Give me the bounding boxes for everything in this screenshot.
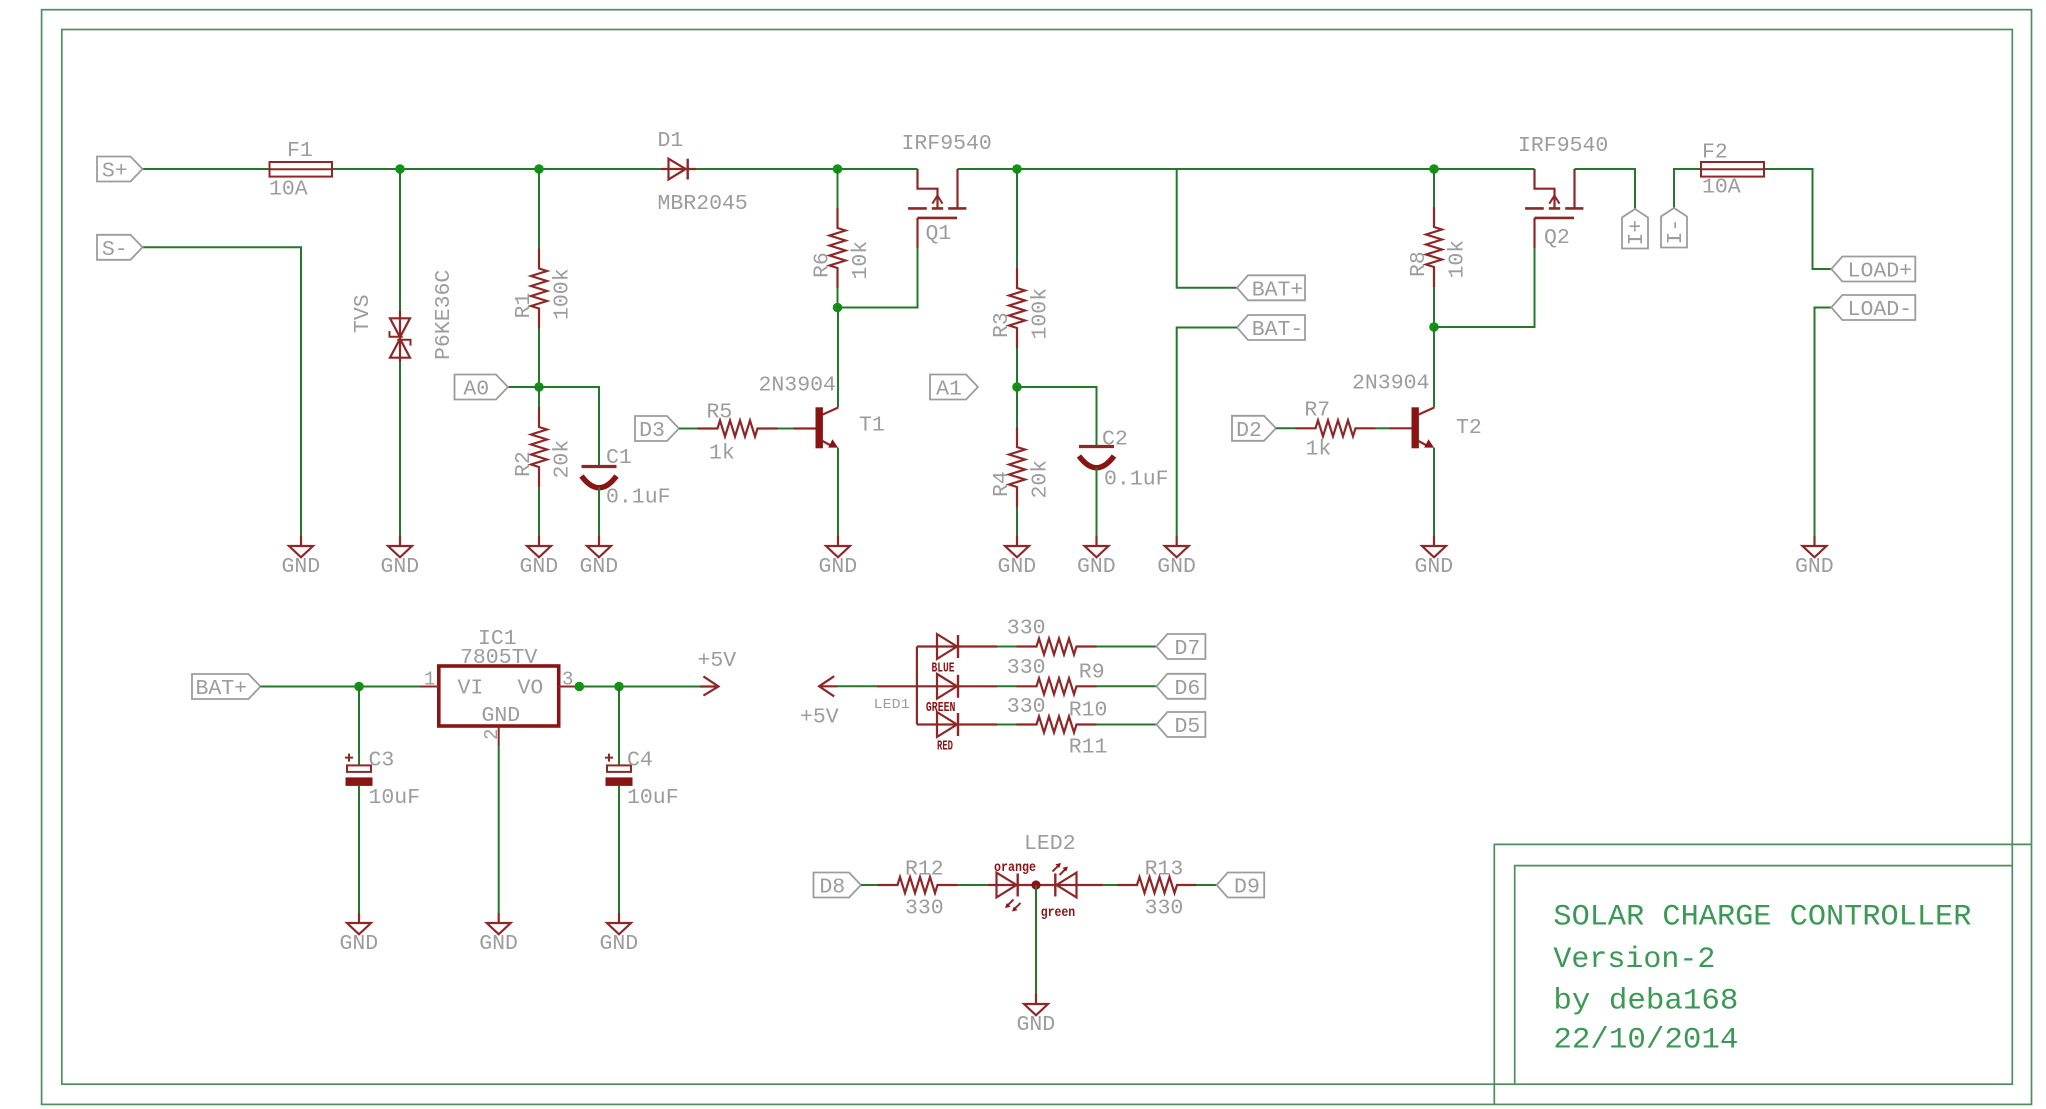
svg-text:GND: GND [381,555,420,579]
wire R5 to T1 base [778,428,816,430]
svg-text:RED: RED [937,738,953,754]
wire IC1 VO to +5V [579,686,701,688]
wire S- down [142,247,301,536]
svg-text:+5V: +5V [800,705,839,729]
svg-text:2N3904: 2N3904 [759,374,836,398]
wire C2 to ground [1096,468,1098,537]
junction R8 tap [1429,164,1439,174]
ground GND (S-) [282,536,321,579]
resistor R5 [698,401,778,466]
wire LOAD- to ground [1815,308,1832,537]
wire A0 node to R2 [538,387,540,407]
wire R3 to A1 node [1016,348,1018,387]
svg-text:GND: GND [482,704,521,728]
svg-text:R2: R2 [512,451,536,477]
node LOAD- flag [1831,295,1915,322]
svg-text:GND: GND [479,932,518,956]
svg-text:LED1: LED1 [874,697,910,713]
svg-text:10A: 10A [269,178,308,202]
wire R8 to gate node [1433,287,1435,327]
wire R2 to ground [538,487,540,536]
node S- flag [97,235,143,262]
node D5 flag [1156,712,1205,739]
wire T2 emitter to ground [1433,448,1435,536]
wire C4 branch [618,687,620,766]
wire gate node to Q1 gate [838,248,918,308]
wire bus to R1 [538,169,540,249]
node D2 flag [1232,416,1276,443]
svg-text:GREEN: GREEN [926,700,956,716]
IC1 7805TV regulator [420,627,579,746]
svg-text:R7: R7 [1304,399,1330,423]
node S+ flag [97,157,143,184]
svg-text:GND: GND [600,932,639,956]
ground GND (C3) [340,913,379,956]
diode TVS P6KE36C [351,270,456,362]
ground GND (BAT-) [1157,536,1196,579]
svg-text:GND: GND [1017,1013,1056,1037]
wire R13 to D9 [1196,884,1217,886]
junction C3 tap [354,682,364,692]
wire S+ to F1 [142,168,270,170]
svg-text:GND: GND [1157,555,1196,579]
ground GND (R4) [998,536,1037,579]
svg-text:Q1: Q1 [926,222,952,246]
wire D3 to R5 [679,428,698,430]
junction R1 tap [534,164,544,174]
resistor R3 [990,268,1053,348]
node I- flag [1661,208,1688,248]
node I+ flag [1622,209,1649,249]
svg-text:10uF: 10uF [627,786,679,810]
transistor T1 2N3904 npn [759,374,885,449]
wire R1 to A0 node [538,329,540,388]
svg-text:GND: GND [580,555,619,579]
ground GND (C1) [580,536,619,579]
ground GND (T2) [1415,536,1454,579]
svg-text:330: 330 [1007,695,1046,719]
svg-text:D2: D2 [1236,419,1262,443]
svg-text:BAT+: BAT+ [195,677,247,701]
resistor R11 [1007,695,1108,760]
wire C3 branch [358,687,360,766]
svg-text:R10: R10 [1069,699,1108,723]
svg-text:R11: R11 [1069,736,1108,760]
wire bus to R3 [1016,169,1018,268]
node D3 flag [635,416,679,443]
svg-text:10A: 10A [1702,176,1741,200]
svg-text:GND: GND [1795,555,1834,579]
wire +5V to LED1 [837,685,876,687]
ground GND (IC1) [479,913,518,956]
wire R4 to ground [1016,507,1018,536]
wire bus to TVS [399,169,401,311]
svg-text:green: green [1041,905,1076,921]
fuse F2 [1701,141,1764,200]
wire D8 to R12 [861,884,878,886]
node D7 flag [1156,634,1205,661]
wire R9 to D7 [1097,646,1157,648]
svg-text:3: 3 [562,669,573,691]
svg-text:by deba168: by deba168 [1553,985,1738,1019]
svg-text:R6: R6 [811,252,835,278]
svg-text:A1: A1 [936,378,962,402]
svg-text:D3: D3 [639,419,665,443]
ground GND (C4) [600,913,639,956]
title text [1553,901,1971,1058]
resistor R4 [990,427,1053,507]
svg-text:330: 330 [1007,617,1046,641]
junction A0 node [534,382,544,392]
wire BAT- to ground [1177,328,1237,537]
wire F1 to Q1 source (bus) [332,168,918,170]
ground GND (R2) [520,536,559,579]
svg-text:C3: C3 [369,748,395,772]
resistor R8 [1407,207,1470,287]
node D6 flag [1156,674,1205,701]
node D8 flag [814,873,862,900]
svg-text:S+: S+ [102,160,128,184]
svg-text:S-: S- [102,238,128,262]
svg-text:7805TV: 7805TV [460,646,538,670]
svg-text:1: 1 [424,669,435,691]
svg-text:C2: C2 [1102,428,1128,452]
svg-text:100k: 100k [1029,288,1053,340]
svg-text:GND: GND [998,555,1037,579]
wire LED2 to R13 [1103,884,1117,886]
svg-text:orange: orange [994,860,1036,876]
svg-text:GND: GND [340,932,379,956]
resistor R7 [1296,399,1376,462]
svg-text:20k: 20k [551,440,575,479]
svg-text:22/10/2014: 22/10/2014 [1553,1024,1738,1058]
svg-text:D5: D5 [1175,715,1201,739]
node A1 flag [930,375,978,402]
svg-text:D1: D1 [658,129,684,153]
svg-text:GND: GND [1415,555,1454,579]
svg-text:10uF: 10uF [369,786,421,810]
svg-text:+5V: +5V [698,649,737,673]
node BAT- flag [1237,315,1305,342]
wire bus to R6 [837,169,839,208]
wire bus to R8 [1433,169,1435,207]
svg-text:Version-2: Version-2 [1553,943,1715,977]
wire C1 to ground [598,488,600,537]
svg-text:F1: F1 [287,139,313,163]
junction TVS tap [395,164,405,174]
resistor R1 [512,249,575,329]
wire D2 to R7 [1276,427,1296,429]
node BAT+ flag [1237,275,1305,302]
svg-text:F2: F2 [1702,141,1728,165]
svg-text:1k: 1k [709,442,735,466]
wire Q2 drain to I+ [1575,169,1636,209]
svg-text:10k: 10k [849,241,873,280]
resistor R2 [512,407,575,487]
svg-text:100k: 100k [551,268,575,320]
svg-text:GND: GND [819,555,858,579]
wire C4 to ground [618,786,620,913]
capacitor C2 [1079,428,1169,492]
svg-text:R12: R12 [905,857,944,881]
junction R6/gate/T1 node [833,303,843,313]
wire R7 to T2 base [1376,427,1412,429]
svg-text:BAT+: BAT+ [1252,278,1304,302]
wire green led to R10 [958,685,1017,687]
resistor R13 [1117,857,1197,920]
svg-text:GND: GND [282,555,321,579]
node D9 flag [1217,873,1265,900]
svg-text:GND: GND [1077,555,1116,579]
wire A1 row to C2 [1017,387,1097,447]
svg-text:BAT-: BAT- [1252,318,1304,342]
resistor R9 [1007,617,1105,685]
svg-text:IRF9540: IRF9540 [1518,134,1608,158]
svg-text:T1: T1 [859,414,885,438]
svg-text:2: 2 [481,729,503,740]
transistor Q2 IRF9540 p-mosfet [1518,134,1608,250]
svg-text:IRF9540: IRF9540 [902,132,992,156]
junction C4 tap [614,682,624,692]
svg-text:R5: R5 [707,401,733,425]
svg-text:C1: C1 [606,446,632,470]
svg-text:D7: D7 [1175,637,1201,661]
wire IC1 GND pin down [498,746,500,913]
svg-text:T2: T2 [1456,416,1482,440]
wire R10 to D6 [1097,685,1157,687]
wire bus to BAT+ [1177,169,1237,288]
svg-text:R3: R3 [990,312,1014,338]
svg-text:2N3904: 2N3904 [1352,372,1429,396]
junction VO pin node [575,682,585,692]
svg-text:D9: D9 [1234,876,1260,900]
svg-text:330: 330 [1007,656,1046,680]
node LOAD+ flag [1831,257,1915,284]
svg-text:A0: A0 [463,378,489,402]
capacitor C1 [582,446,671,510]
ground GND (C2) [1077,536,1116,579]
diode D1 MBR2045 [658,129,748,216]
svg-text:TVS: TVS [351,294,375,333]
junction A1 node [1012,382,1022,392]
resistor R6 [811,208,874,288]
svg-text:SOLAR CHARGE CONTROLLER: SOLAR CHARGE CONTROLLER [1553,901,1971,935]
junction R3 tap [1012,164,1022,174]
capacitor C4 polarized [605,748,679,810]
wire red led to R11 [958,723,1017,725]
wire T1 emitter to ground [837,448,839,536]
title block outer box [1494,844,2031,1104]
svg-text:C4: C4 [627,748,653,772]
wire R11 to D5 [1097,724,1157,726]
svg-text:GND: GND [520,555,559,579]
svg-text:LED2: LED2 [1024,832,1076,856]
svg-text:I-: I- [1664,219,1688,245]
svg-text:R13: R13 [1145,857,1184,881]
svg-text:BLUE: BLUE [932,661,955,677]
node A0 flag [455,375,509,402]
ground GND (LOAD-) [1795,536,1834,579]
wire node to T2 collector [1433,327,1435,408]
junction D1/R6 node [833,164,843,174]
svg-text:R8: R8 [1407,251,1431,277]
svg-text:0.1uF: 0.1uF [1104,467,1169,491]
wire R12 to LED2 [958,884,989,886]
resistor R12 [878,857,958,920]
fuse F1 [269,139,332,202]
wire gate node to Q2 gate [1434,248,1535,327]
wire F2 to LOAD+ [1764,169,1831,269]
led LED1 RGB common anode [874,634,958,754]
svg-text:Q2: Q2 [1544,226,1570,250]
svg-text:10k: 10k [1446,240,1470,279]
svg-text:P6KE36C: P6KE36C [432,270,456,360]
svg-text:0.1uF: 0.1uF [606,486,671,510]
wire BAT+ to IC1 VI [261,686,421,688]
power +5V arrow (IC1) [698,649,737,696]
transistor Q1 IRF9540 p-mosfet [902,132,992,248]
svg-text:1k: 1k [1306,438,1332,462]
wire A1 node to R4 [1016,387,1018,427]
wire R6 to gate node [837,288,839,308]
svg-text:LOAD+: LOAD+ [1848,260,1913,284]
ground GND (LED2) [1017,994,1056,1037]
svg-text:20k: 20k [1029,460,1053,499]
svg-text:R4: R4 [990,471,1014,497]
title block inner box [1515,866,2013,1085]
capacitor C3 polarized [345,748,420,810]
led LED2 bicolor orange/green [988,832,1103,921]
svg-text:D8: D8 [819,876,845,900]
svg-text:VI: VI [458,677,484,701]
node BAT+ (IC1 input) flag [192,674,261,701]
transistor T2 2N3904 npn [1352,372,1482,449]
svg-text:MBR2045: MBR2045 [658,192,748,216]
wire TVS to ground [399,362,401,536]
wire A0 row to C1 [508,387,600,467]
svg-text:D6: D6 [1175,677,1201,701]
junction R8/gate/T2 node [1429,322,1439,332]
ground GND (TVS) [381,536,420,579]
ground GND (T1) [819,536,858,579]
svg-text:VO: VO [518,677,544,701]
wire C3 to ground [358,786,360,913]
wire Q1 drain to Q2 source (bus) [958,168,1535,170]
svg-text:R9: R9 [1079,660,1105,684]
wire blue led to R9 [958,645,1017,647]
wire node to T1 collector [837,308,839,408]
svg-text:I+: I+ [1625,220,1649,246]
svg-text:330: 330 [1145,897,1184,921]
wire LED2 common to ground [1035,885,1037,994]
svg-text:R1: R1 [512,293,536,319]
svg-text:330: 330 [905,897,944,921]
power +5V arrow (LED1) [800,676,839,729]
svg-text:LOAD-: LOAD- [1848,298,1913,322]
resistor R10 [1007,656,1108,723]
wire I- to F2 [1674,169,1701,208]
